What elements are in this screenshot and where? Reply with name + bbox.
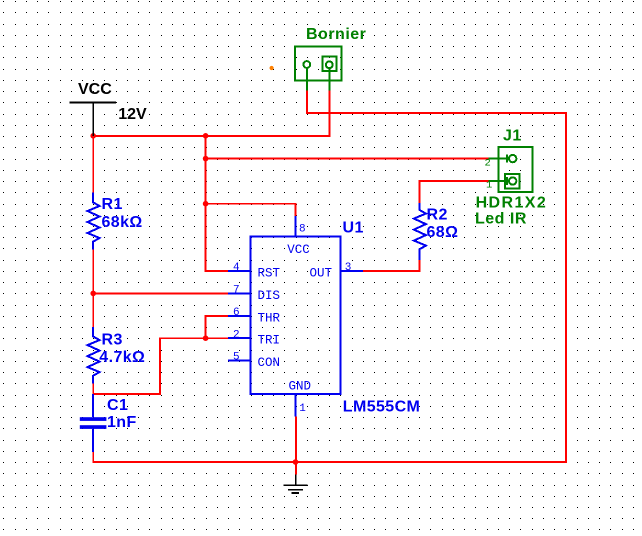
svg-text:OUT: OUT — [310, 267, 333, 281]
svg-text:4: 4 — [233, 262, 240, 274]
svg-text:68kΩ: 68kΩ — [102, 214, 143, 231]
svg-text:5: 5 — [233, 352, 240, 364]
svg-text:DIS: DIS — [258, 289, 281, 303]
svg-text:1nF: 1nF — [107, 414, 137, 431]
svg-text:2: 2 — [233, 329, 240, 341]
svg-text:R3: R3 — [102, 332, 123, 349]
svg-text:HDR1X2: HDR1X2 — [476, 195, 548, 212]
svg-text:J1: J1 — [503, 128, 522, 145]
svg-text:VCC: VCC — [287, 243, 310, 257]
svg-text:7: 7 — [233, 285, 240, 297]
svg-text:LM555CM: LM555CM — [343, 398, 420, 415]
svg-text:1: 1 — [486, 180, 492, 192]
svg-text:TRI: TRI — [258, 334, 281, 348]
svg-text:VCC: VCC — [78, 81, 112, 98]
svg-text:Led IR: Led IR — [475, 211, 527, 228]
svg-text:4.7kΩ: 4.7kΩ — [99, 349, 145, 366]
svg-text:68Ω: 68Ω — [427, 224, 459, 241]
svg-text:2: 2 — [485, 158, 491, 170]
svg-text:Bornier: Bornier — [306, 26, 366, 43]
svg-text:1: 1 — [299, 403, 306, 415]
svg-text:R1: R1 — [102, 196, 123, 213]
svg-text:3: 3 — [345, 262, 352, 274]
svg-text:6: 6 — [233, 307, 240, 319]
svg-text:12V: 12V — [118, 106, 147, 123]
svg-text:RST: RST — [258, 267, 281, 281]
svg-text:GND: GND — [289, 380, 312, 394]
svg-text:C1: C1 — [107, 397, 128, 414]
svg-text:8: 8 — [299, 223, 306, 235]
svg-text:U1: U1 — [343, 220, 364, 237]
svg-text:CON: CON — [258, 356, 281, 370]
svg-text:THR: THR — [258, 311, 281, 325]
svg-text:R2: R2 — [427, 206, 448, 223]
